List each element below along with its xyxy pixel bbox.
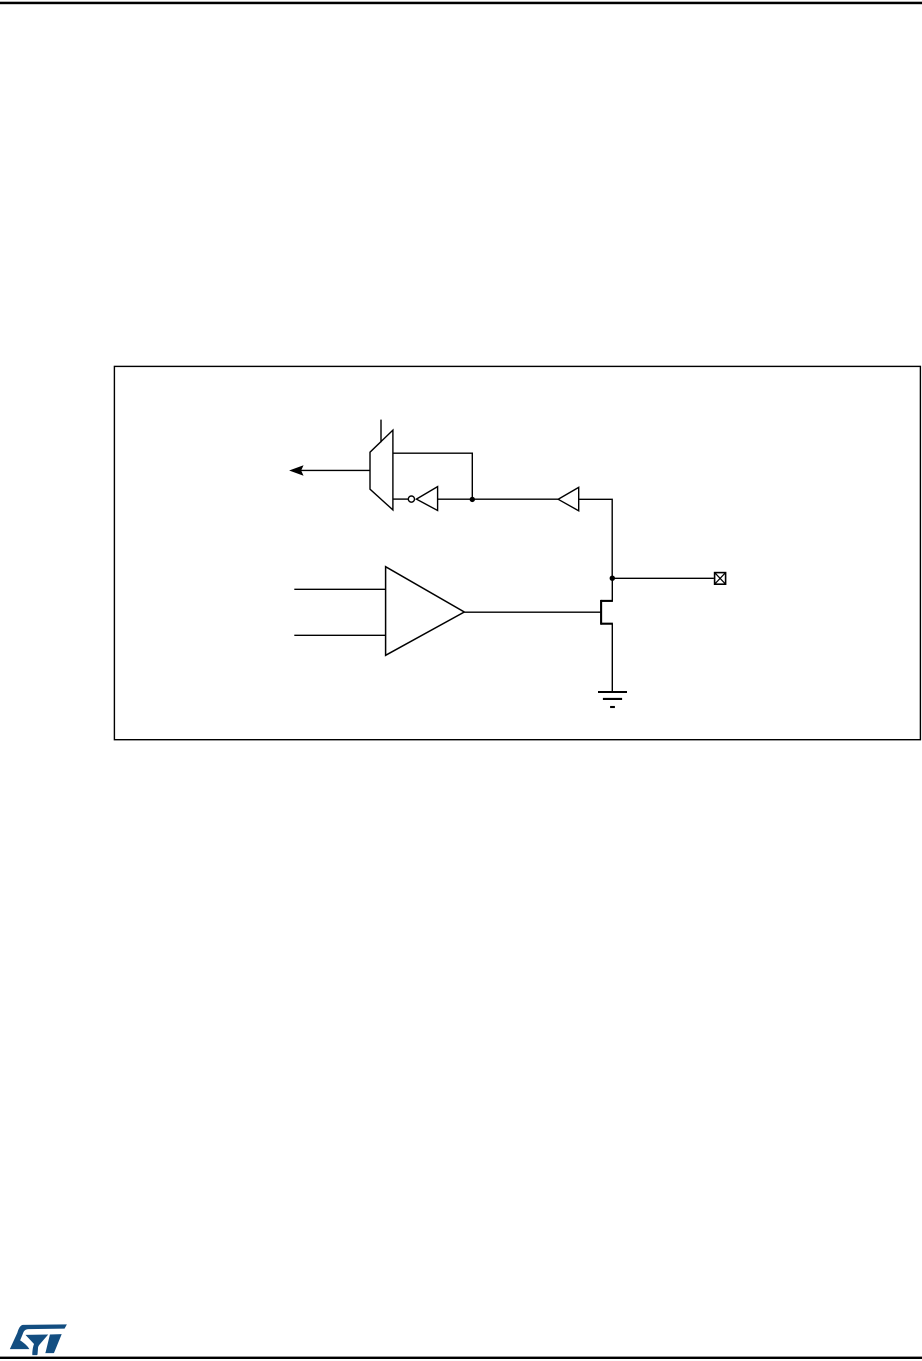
- wire node B to drain: [611, 578, 613, 601]
- inverter U1: [416, 487, 437, 511]
- ST logo: [10, 1324, 67, 1355]
- wire buffer output to node B: [579, 499, 613, 578]
- figure frame: [114, 366, 920, 739]
- wire mux top input: [393, 453, 472, 499]
- mux select wire: [380, 420, 382, 443]
- arrowhead: [290, 466, 303, 475]
- node A junction dot: [470, 497, 475, 502]
- buffer U2: [558, 487, 579, 510]
- pad symbol: [715, 573, 726, 585]
- transistor Q1: [601, 600, 613, 625]
- top rule: [0, 2, 922, 4]
- bottom rule: [0, 1357, 922, 1359]
- comparator input wire bottom: [294, 634, 385, 636]
- wire mux bottom input: [393, 498, 408, 500]
- wire mux output: [301, 469, 371, 471]
- wire node B to pad: [612, 577, 714, 579]
- mux M1: [370, 430, 393, 510]
- ground: [598, 692, 627, 707]
- comparator U3: [386, 567, 465, 656]
- inverter U1 bubble: [408, 496, 414, 502]
- comparator input wire top: [294, 588, 385, 590]
- node B junction dot: [610, 576, 615, 581]
- gate wire from comparator: [464, 611, 600, 613]
- wire source to ground: [611, 624, 613, 692]
- wire inverter to buffer: [438, 498, 559, 500]
